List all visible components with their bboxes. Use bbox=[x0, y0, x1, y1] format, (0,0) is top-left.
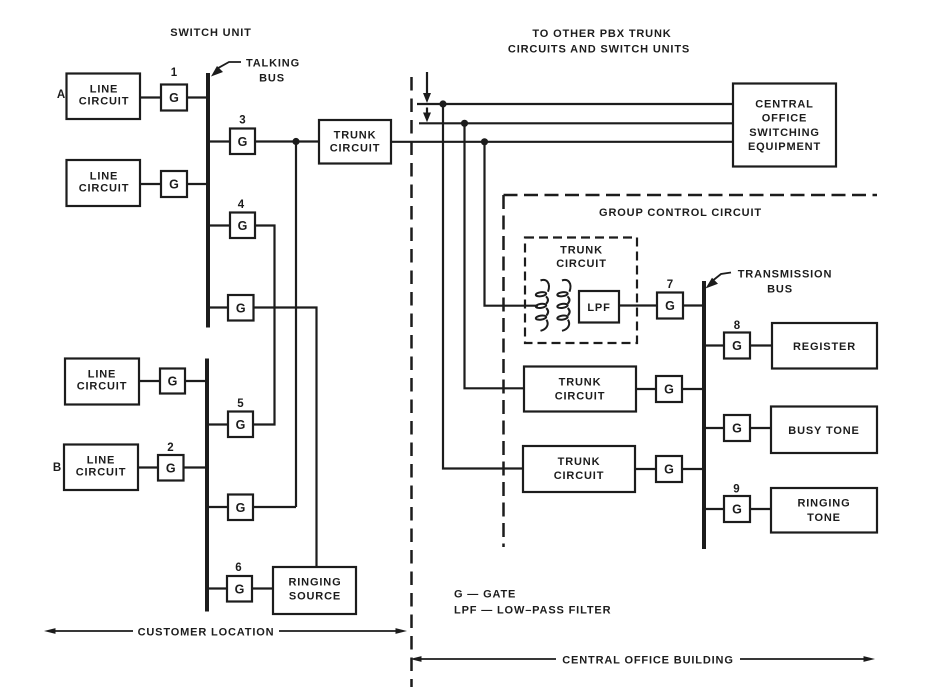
gate 1 bbox=[161, 85, 187, 111]
line circuit box (third) bbox=[65, 359, 139, 405]
talking bus (upper segment) bbox=[206, 73, 210, 328]
junction node line 2 bbox=[461, 120, 468, 127]
register box bbox=[772, 323, 877, 369]
label SWITCH UNIT bbox=[170, 27, 251, 39]
wire gate 9 to ringing tone bbox=[750, 508, 771, 510]
trunk circuit dashed box bbox=[525, 238, 637, 344]
svg-text:REGISTER: REGISTER bbox=[793, 341, 856, 353]
wire line circuit B to gate 2 bbox=[138, 466, 158, 468]
svg-text:CIRCUITS AND SWITCH UNITS: CIRCUITS AND SWITCH UNITS bbox=[508, 44, 690, 56]
svg-text:TALKING: TALKING bbox=[246, 58, 300, 70]
svg-text:LINE: LINE bbox=[90, 84, 118, 96]
wire line circuit 3 to gate bbox=[139, 380, 160, 382]
svg-text:G: G bbox=[236, 302, 246, 316]
wire talking bus to gate 5 bbox=[207, 423, 228, 425]
wire gate 4 right then down to gate 5 bbox=[253, 226, 275, 425]
svg-text:CIRCUIT: CIRCUIT bbox=[79, 183, 130, 195]
svg-text:LINE: LINE bbox=[87, 455, 115, 467]
svg-text:CIRCUIT: CIRCUIT bbox=[555, 391, 606, 403]
busy tone box bbox=[771, 407, 877, 454]
wire line 2 down to trunk circuit 2 bbox=[465, 123, 525, 388]
wire gate below 5 to long vertical bbox=[253, 506, 296, 508]
wire gate to transmission bus bbox=[682, 388, 704, 390]
svg-text:9: 9 bbox=[733, 484, 739, 496]
label TRANSMISSION BUS bbox=[738, 269, 833, 296]
legend LPF - LOW-PASS FILTER bbox=[454, 605, 611, 617]
wire pbx trunk line 1 bbox=[417, 103, 733, 105]
svg-text:7: 7 bbox=[667, 279, 673, 291]
line circuit box (second) bbox=[67, 160, 141, 206]
svg-text:SWITCHING: SWITCHING bbox=[749, 127, 820, 139]
svg-text:3: 3 bbox=[239, 115, 245, 127]
wire line 1 down to trunk circuit 3 bbox=[443, 104, 523, 469]
gate 2 bbox=[158, 455, 184, 481]
pin number 3 bbox=[239, 115, 245, 127]
svg-text:G: G bbox=[166, 462, 176, 476]
svg-text:5: 5 bbox=[237, 398, 244, 410]
wire trunk circuit 3 to gate bbox=[635, 468, 656, 470]
svg-text:TRUNK: TRUNK bbox=[560, 245, 603, 257]
svg-text:G: G bbox=[665, 299, 675, 313]
wire pbx trunk line 2 bbox=[419, 122, 733, 124]
transmission bus leader arrow bbox=[706, 273, 732, 289]
svg-text:TRANSMISSION: TRANSMISSION bbox=[738, 269, 833, 281]
svg-text:CENTRAL: CENTRAL bbox=[755, 99, 814, 111]
svg-text:EQUIPMENT: EQUIPMENT bbox=[748, 141, 821, 153]
svg-text:G: G bbox=[732, 339, 742, 353]
svg-text:G: G bbox=[236, 501, 246, 515]
wire talking bus to gate 6 bbox=[207, 587, 227, 589]
svg-text:CENTRAL OFFICE BUILDING: CENTRAL OFFICE BUILDING bbox=[562, 655, 734, 667]
wire transmission bus to gate 8 bbox=[704, 344, 724, 346]
svg-text:G: G bbox=[664, 463, 674, 477]
svg-text:LPF: LPF bbox=[587, 302, 610, 314]
node B label bbox=[53, 462, 61, 474]
gate below 5 bbox=[228, 495, 253, 521]
label TALKING BUS bbox=[246, 58, 300, 85]
svg-text:8: 8 bbox=[734, 320, 741, 332]
svg-text:G: G bbox=[664, 383, 674, 397]
gate (trunk circuit 3) bbox=[656, 456, 682, 482]
svg-text:TO OTHER PBX TRUNK: TO OTHER PBX TRUNK bbox=[532, 28, 671, 40]
svg-text:LPF — LOW–PASS FILTER: LPF — LOW–PASS FILTER bbox=[454, 605, 611, 617]
legend G - GATE bbox=[454, 589, 516, 601]
svg-text:2: 2 bbox=[167, 442, 173, 454]
pin number 1 bbox=[171, 67, 178, 79]
wire talking bus to gate below 4 bbox=[208, 306, 228, 308]
wire gate 2 to talking bus bbox=[184, 466, 209, 468]
svg-text:B: B bbox=[53, 462, 61, 474]
line circuit box A bbox=[67, 74, 141, 120]
svg-text:RINGING: RINGING bbox=[797, 498, 850, 510]
gate 7 bbox=[657, 293, 683, 319]
LPF box bbox=[579, 291, 619, 323]
wire talking bus to gate 4 bbox=[208, 224, 230, 226]
junction node line 1 bbox=[439, 100, 446, 107]
wire trunk circuit 2 to gate bbox=[636, 388, 656, 390]
wire gate 3 to trunk circuit bbox=[255, 140, 319, 142]
arrow from other pbx units into line 2 bbox=[423, 108, 431, 123]
svg-text:CIRCUIT: CIRCUIT bbox=[79, 96, 130, 108]
wire gate below 4 right then down to ringing source bbox=[254, 308, 317, 568]
wire gate 6 to ringing source bbox=[252, 587, 273, 589]
wire transmission bus to busy tone gate bbox=[704, 427, 724, 429]
svg-text:BUSY TONE: BUSY TONE bbox=[788, 425, 859, 437]
wire gate 8 to register bbox=[750, 344, 772, 346]
pin number 6 bbox=[235, 562, 241, 574]
wire gate to busy tone bbox=[750, 427, 771, 429]
pin number 7 bbox=[667, 279, 673, 291]
wire talking bus to gate below 5 bbox=[207, 506, 228, 508]
svg-text:G: G bbox=[169, 178, 179, 192]
svg-text:CIRCUIT: CIRCUIT bbox=[76, 467, 127, 479]
pin number 4 bbox=[238, 199, 245, 211]
wire trunk circuit output to central office equipment bbox=[391, 141, 733, 143]
svg-text:G — GATE: G — GATE bbox=[454, 589, 516, 601]
wire gate to talking bus bbox=[187, 183, 208, 185]
svg-text:BUS: BUS bbox=[259, 73, 285, 85]
wire talking bus to gate 3 bbox=[208, 140, 230, 142]
central office switching equipment box bbox=[733, 84, 836, 167]
junction node on trunk line bbox=[481, 138, 488, 145]
transformer coil (secondary) bbox=[557, 280, 570, 331]
customer location dimension arrow bbox=[44, 627, 407, 639]
svg-text:LINE: LINE bbox=[90, 171, 118, 183]
svg-text:RINGING: RINGING bbox=[288, 577, 341, 589]
wire gate 1 to talking bus bbox=[187, 96, 208, 98]
wire junction down to gate below 5 bbox=[295, 142, 297, 508]
arrow from other pbx units into line 1 bbox=[423, 72, 431, 103]
svg-text:G: G bbox=[732, 422, 742, 436]
gate 6 bbox=[227, 576, 252, 602]
svg-text:6: 6 bbox=[235, 562, 241, 574]
svg-text:CIRCUIT: CIRCUIT bbox=[77, 381, 128, 393]
gate (busy tone) bbox=[724, 415, 750, 441]
transformer coil (primary) bbox=[536, 280, 549, 331]
svg-text:4: 4 bbox=[238, 199, 245, 211]
svg-text:G: G bbox=[732, 503, 742, 517]
gate 3 bbox=[230, 129, 255, 155]
svg-text:SOURCE: SOURCE bbox=[289, 591, 341, 603]
gate 9 bbox=[724, 496, 750, 522]
svg-text:SWITCH UNIT: SWITCH UNIT bbox=[170, 27, 251, 39]
svg-text:A: A bbox=[57, 89, 65, 101]
svg-text:TRUNK: TRUNK bbox=[558, 456, 601, 468]
svg-text:1: 1 bbox=[171, 67, 178, 79]
svg-text:TRUNK: TRUNK bbox=[334, 130, 377, 142]
group control circuit dashed border bbox=[504, 195, 878, 547]
gate 4 bbox=[230, 213, 255, 239]
wire LPF to gate 7 bbox=[619, 304, 657, 306]
svg-text:G: G bbox=[235, 583, 245, 597]
gate 8 bbox=[724, 333, 750, 359]
central office building dimension arrow bbox=[410, 655, 875, 667]
svg-text:OFFICE: OFFICE bbox=[762, 113, 807, 125]
trunk circuit box 3 (group control) bbox=[523, 446, 635, 492]
gate (trunk circuit 2) bbox=[656, 376, 682, 402]
label GROUP CONTROL CIRCUIT bbox=[599, 207, 762, 219]
gate (second line circuit) bbox=[161, 171, 187, 197]
junction node at gate 3 output bbox=[292, 138, 299, 145]
customer/central boundary dashed line bbox=[410, 77, 413, 687]
wire gate to talking bus bbox=[185, 380, 207, 382]
trunk circuit box (switch unit) bbox=[319, 120, 391, 164]
wire gate to transmission bus bbox=[682, 468, 704, 470]
wire transmission bus to gate 9 bbox=[704, 508, 724, 510]
svg-text:GROUP CONTROL CIRCUIT: GROUP CONTROL CIRCUIT bbox=[599, 207, 762, 219]
label TO OTHER PBX TRUNK CIRCUITS AND SWITCH UNITS bbox=[508, 28, 690, 56]
pin number 9 bbox=[733, 484, 739, 496]
ringing source box bbox=[273, 567, 356, 614]
node A label bbox=[57, 89, 65, 101]
wire line circuit 2 to gate bbox=[140, 183, 161, 185]
line circuit box B bbox=[64, 445, 138, 491]
svg-text:CIRCUIT: CIRCUIT bbox=[556, 258, 607, 270]
wire gate 7 to transmission bus bbox=[683, 304, 704, 306]
wire line 3 down to lpf trunk circuit bbox=[485, 142, 539, 306]
svg-text:LINE: LINE bbox=[88, 369, 116, 381]
gate 5 bbox=[228, 412, 253, 438]
svg-text:CIRCUIT: CIRCUIT bbox=[554, 470, 605, 482]
svg-text:G: G bbox=[238, 219, 248, 233]
ringing tone box bbox=[771, 488, 877, 533]
wire line circuit A to gate 1 bbox=[140, 96, 161, 98]
svg-text:G: G bbox=[238, 135, 248, 149]
talking bus leader arrow bbox=[211, 62, 241, 77]
talking bus (lower segment) bbox=[205, 359, 209, 612]
trunk circuit box 2 (group control) bbox=[524, 367, 636, 412]
pin number 8 bbox=[734, 320, 741, 332]
svg-text:G: G bbox=[168, 375, 178, 389]
pin number 5 bbox=[237, 398, 244, 410]
svg-text:G: G bbox=[236, 418, 246, 432]
svg-text:CIRCUIT: CIRCUIT bbox=[330, 143, 381, 155]
svg-text:CUSTOMER LOCATION: CUSTOMER LOCATION bbox=[138, 627, 275, 639]
svg-text:BUS: BUS bbox=[767, 284, 793, 296]
svg-text:TONE: TONE bbox=[807, 512, 841, 524]
gate (third line circuit) bbox=[160, 369, 185, 394]
transmission bus bbox=[702, 281, 706, 549]
svg-text:G: G bbox=[169, 91, 179, 105]
pin number 2 bbox=[167, 442, 173, 454]
gate below 4 bbox=[228, 295, 254, 321]
svg-text:TRUNK: TRUNK bbox=[559, 377, 602, 389]
